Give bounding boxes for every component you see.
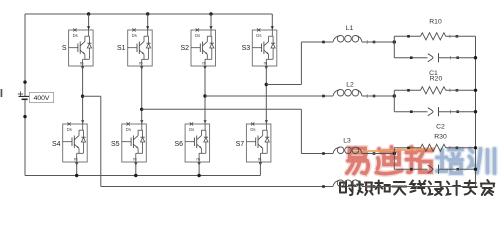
- inductor L2: [322, 89, 375, 97]
- wire: phase C horizontal to L2: [205, 95, 333, 97]
- label S7: [236, 141, 245, 148]
- node: phase A tap: [81, 95, 84, 98]
- watermark gray text: she pin he tian xian she ji zhuan jia: [340, 180, 494, 195]
- wire: collector drop to S3: [271, 14, 273, 30]
- inductor L4: [322, 180, 375, 188]
- wire: L2 to RC tee: [362, 95, 394, 97]
- node: bus junction S6: [197, 174, 200, 177]
- wire: C2 branch right lead: [439, 111, 476, 113]
- label S5: [111, 141, 120, 148]
- wire: phase B horizontal: [142, 108, 302, 110]
- wire: C1 branch left lead: [394, 57, 427, 59]
- wire: R10 branch left lead: [394, 35, 420, 37]
- label S3: [242, 45, 251, 52]
- resistor R10: [407, 33, 458, 40]
- svg-text:Ds: Ds: [256, 33, 261, 38]
- wire: bottom DC- bus: [25, 175, 260, 177]
- wire: L1 to RC tee: [362, 41, 394, 43]
- svg-text:L3: L3: [343, 138, 351, 145]
- inductor L3: [322, 147, 375, 155]
- node: right bus junction: [474, 56, 477, 59]
- svg-text:L2: L2: [346, 82, 354, 89]
- wire: C2 branch left lead: [394, 111, 427, 113]
- label C2: [436, 124, 445, 131]
- svg-text:m: m: [202, 61, 206, 66]
- wire: C1 branch right lead: [439, 57, 476, 59]
- wire: collector drop to S1: [147, 14, 149, 30]
- watermark orange underline streak: [351, 149, 435, 153]
- wire: L3 to RC tee: [362, 153, 394, 155]
- svg-text:S4: S4: [52, 141, 61, 148]
- value label 400V: [29, 92, 53, 102]
- label S4: [52, 141, 61, 148]
- svg-text:Ds: Ds: [132, 33, 137, 38]
- wire: phase D leg S3 to S7: [265, 66, 267, 124]
- label L1: [346, 25, 354, 32]
- transistor S5 (IGBT/Diode block): [122, 120, 147, 165]
- wire: S5 emitter to bus: [135, 162, 137, 176]
- node: phase C tap: [203, 94, 206, 97]
- node: bus junction S4: [75, 174, 78, 177]
- svg-text:Ds: Ds: [195, 33, 200, 38]
- watermark blue character Pei: [437, 150, 462, 174]
- resistor R30: [407, 144, 458, 151]
- watermark red character Di: [377, 147, 402, 174]
- node: right bus junction: [474, 110, 477, 113]
- wire: phase B leg S1 to S5: [141, 66, 143, 124]
- svg-text:Ds: Ds: [250, 127, 255, 132]
- svg-text:S1: S1: [117, 45, 126, 52]
- watermark red character Yi: [347, 148, 368, 173]
- wire: right output bus: [475, 36, 477, 186]
- transistor S1 (IGBT/Diode block): [128, 26, 153, 69]
- wire: L4 to right bus: [362, 186, 476, 188]
- label S: [62, 45, 67, 52]
- svg-text:m: m: [196, 157, 200, 162]
- node: right bus junction: [474, 89, 477, 92]
- svg-text:m: m: [80, 61, 84, 66]
- svg-text:m: m: [258, 157, 262, 162]
- svg-text:Ds: Ds: [67, 127, 72, 132]
- edge tick (cropped element at left border): [1, 89, 3, 97]
- svg-text:S7: S7: [236, 141, 245, 148]
- svg-text:m: m: [139, 61, 143, 66]
- svg-text:S3: S3: [242, 45, 251, 52]
- transistor S3 (IGBT/Diode block): [252, 26, 276, 69]
- wire: left DC rail upper: [24, 14, 26, 96]
- wire: S6 emitter to bus: [198, 162, 200, 176]
- wire: phase B vertical to L3 row: [300, 109, 302, 153]
- wire: C3 branch right lead: [439, 168, 476, 170]
- wire: phase D horizontal: [266, 84, 301, 86]
- wire: phase A leg S to S4: [82, 66, 84, 124]
- battery DC voltage source 400V: [18, 91, 31, 99]
- transistor S (IGBT/Diode block): [69, 26, 94, 69]
- wire: L3 row lead-in: [301, 153, 333, 155]
- wire: phase C leg S2 to S6: [204, 66, 206, 124]
- node: DC source positive terminal: [23, 80, 26, 83]
- inductor L1: [322, 35, 375, 43]
- label S1: [117, 45, 126, 52]
- wire: L1 row lead-in: [301, 41, 333, 43]
- svg-text:m: m: [74, 157, 78, 162]
- wire: phase A bottom run to L4: [101, 186, 333, 188]
- transistor S7 (IGBT/Diode block): [246, 120, 271, 165]
- svg-text:S: S: [62, 45, 67, 52]
- wire: top DC+ bus: [25, 13, 272, 15]
- svg-text:R10: R10: [429, 19, 442, 26]
- capacitor C1: [410, 53, 459, 62]
- wire: collector drop to S2: [210, 14, 212, 30]
- svg-text:Ds: Ds: [126, 127, 131, 132]
- svg-text:m: m: [264, 61, 268, 66]
- svg-text:R30: R30: [434, 134, 447, 141]
- wire: R20 branch left lead: [394, 89, 420, 91]
- wire: R10 branch right lead: [446, 35, 476, 37]
- node: right bus junction: [474, 146, 477, 149]
- svg-text:400V: 400V: [34, 95, 50, 102]
- wire: split vertical for R20/C2: [393, 90, 395, 111]
- node: bus junction S5: [134, 174, 137, 177]
- label R20: [430, 76, 443, 83]
- label R10: [429, 19, 442, 26]
- wire: R30 branch left lead: [394, 147, 420, 149]
- label C1: [429, 70, 438, 77]
- node: phase D tap: [265, 83, 268, 86]
- wire: left DC rail lower: [24, 99, 26, 176]
- wire: phase A tap to corner: [83, 95, 101, 97]
- wire: split vertical for R10/C1: [393, 36, 395, 57]
- resistor R20: [407, 87, 458, 94]
- svg-text:Ds: Ds: [189, 127, 194, 132]
- node: top bus junction above S: [87, 12, 90, 15]
- label R30: [434, 134, 447, 141]
- node: DC source negative terminal: [23, 115, 26, 118]
- svg-text:S6: S6: [174, 141, 183, 148]
- svg-text:R20: R20: [430, 76, 443, 83]
- wire: split vertical for R30/C3: [393, 148, 395, 169]
- wire: collector drop to S: [88, 14, 90, 30]
- wire: phase A vertical down: [100, 96, 102, 186]
- svg-text:C2: C2: [436, 124, 445, 131]
- svg-text:L1: L1: [346, 25, 354, 32]
- transistor S2 (IGBT/Diode block): [191, 26, 216, 69]
- node: right bus junction: [474, 168, 477, 171]
- wire: phase D vertical up to L1 row: [300, 42, 302, 85]
- transistor S4 (IGBT/Diode block): [63, 120, 87, 165]
- watermark red character Tuo: [407, 147, 433, 172]
- svg-text:m: m: [133, 157, 137, 162]
- svg-text:Ds: Ds: [73, 33, 78, 38]
- wire: R30 branch right lead: [446, 147, 476, 149]
- svg-text:S2: S2: [180, 45, 189, 52]
- wire: S7 emitter to bus: [259, 162, 261, 176]
- node: phase B tap: [140, 108, 143, 111]
- capacitor C3: [410, 165, 459, 174]
- node: tee at R20/C2: [393, 94, 396, 97]
- svg-text:S5: S5: [111, 141, 120, 148]
- watermark blue character Xun: [470, 149, 495, 173]
- transistor S6 (IGBT/Diode block): [185, 120, 210, 165]
- node: tee at R10/C1: [393, 40, 396, 43]
- node: tee at R30/C3: [393, 152, 396, 155]
- wire: C3 branch left lead: [394, 168, 427, 170]
- wire: R20 branch right lead: [446, 89, 476, 91]
- capacitor C2: [410, 107, 459, 116]
- label S2: [180, 45, 189, 52]
- label S6: [174, 141, 183, 148]
- node: top bus junction above S2: [209, 12, 212, 15]
- wire: S4 emitter to bus: [76, 162, 78, 176]
- label L2: [346, 82, 354, 89]
- node: top bus junction above S1: [146, 12, 149, 15]
- label L3: [343, 138, 351, 145]
